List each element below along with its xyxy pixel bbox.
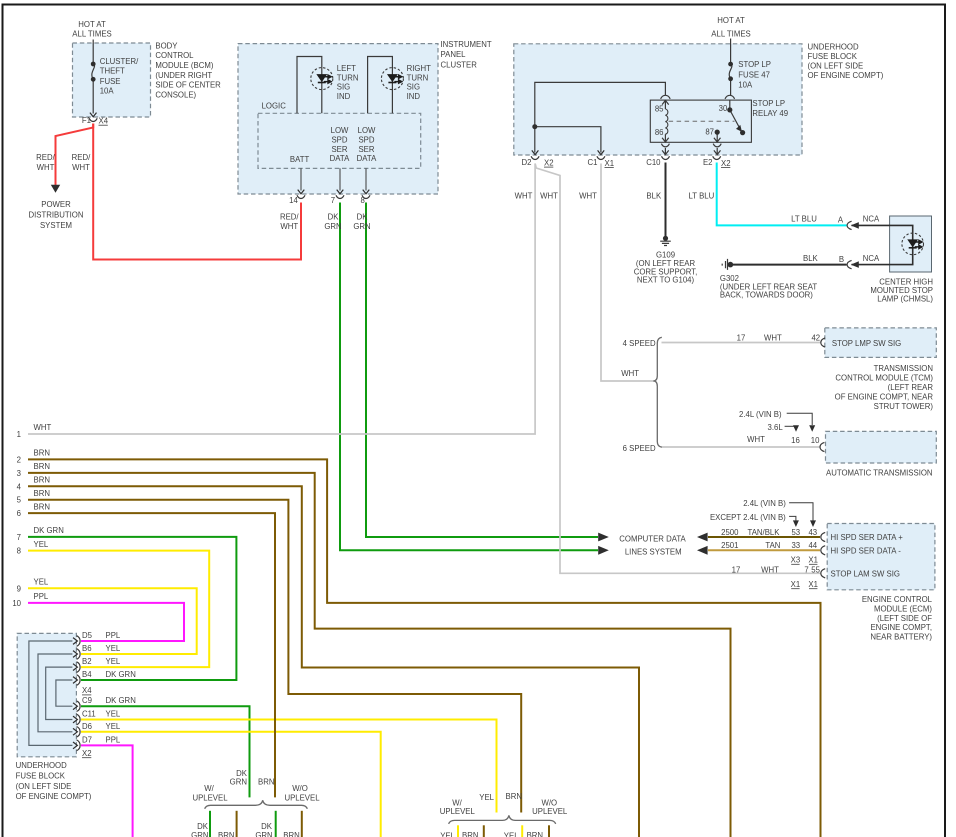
- underline X1 ECM r2c2: [809, 588, 817, 590]
- wire 9 YEL to fuse block B6: [28, 588, 197, 654]
- svg-text:DK GRN: DK GRN: [106, 670, 136, 679]
- CHMSL lamp box: [890, 216, 932, 272]
- 2.4L VIN B pointer line (ECM): [789, 503, 813, 521]
- underline X1 ECM r2c1: [791, 588, 799, 590]
- svg-text:BLK: BLK: [803, 254, 819, 263]
- svg-text:2.4L (VIN B): 2.4L (VIN B): [739, 410, 782, 419]
- svg-text:3.6L: 3.6L: [768, 423, 784, 432]
- svg-text:SIDE OF CENTER: SIDE OF CENTER: [155, 81, 221, 90]
- relay coil winding: [665, 109, 667, 134]
- wire 10 PPL to fuse block D5: [28, 603, 184, 641]
- svg-text:C9: C9: [82, 696, 92, 705]
- svg-text:DK: DK: [197, 822, 209, 831]
- svg-text:TRANSMISSION: TRANSMISSION: [874, 364, 933, 373]
- arrow computer data lines row 2: [598, 546, 609, 555]
- relay 49 coil pin 85 arrow up + line: [662, 100, 669, 109]
- svg-text:(ON LEFT SIDE: (ON LEFT SIDE: [16, 782, 72, 791]
- svg-text:YEL: YEL: [34, 540, 49, 549]
- svg-text:OF ENGINE COMPT): OF ENGINE COMPT): [808, 71, 884, 80]
- svg-text:TAN/BLK: TAN/BLK: [748, 528, 781, 537]
- junction dot relay pin 87: [715, 130, 720, 135]
- svg-text:GRN: GRN: [191, 831, 208, 837]
- CHMSL bulb circle: [902, 233, 924, 255]
- svg-text:6 SPEED: 6 SPEED: [623, 444, 656, 453]
- pin arrows pointing down at box edges: [90, 113, 604, 194]
- wire BCM fuse to X4 pin: [92, 79, 94, 113]
- svg-text:WHT: WHT: [579, 192, 597, 201]
- wire relay 86 to C10 with arrow: [662, 148, 669, 155]
- svg-text:STOP LAM SW SIG: STOP LAM SW SIG: [831, 569, 900, 578]
- underline X2 E2: [721, 167, 730, 169]
- svg-text:3: 3: [17, 469, 21, 478]
- svg-text:30: 30: [719, 104, 728, 113]
- svg-text:D2: D2: [522, 158, 532, 167]
- svg-text:SER: SER: [358, 145, 374, 154]
- connector cup transmission 10: [820, 442, 824, 451]
- svg-text:8: 8: [17, 547, 21, 556]
- svg-text:W/O: W/O: [292, 784, 308, 793]
- wire logic data output to pin 8: [365, 168, 367, 190]
- pin D5: [73, 636, 80, 647]
- svg-text:ALL TIMES: ALL TIMES: [72, 30, 111, 39]
- wire PPL fuse block D7 down: [81, 745, 133, 837]
- svg-text:87: 87: [705, 128, 714, 137]
- LED symbol left turn: [317, 75, 331, 84]
- svg-text:RED/: RED/: [280, 212, 299, 221]
- svg-text:B4: B4: [82, 670, 92, 679]
- svg-text:DK: DK: [261, 822, 273, 831]
- svg-text:FUSE 47: FUSE 47: [738, 70, 770, 79]
- svg-text:33: 33: [791, 541, 800, 550]
- svg-text:MODULE (BCM): MODULE (BCM): [155, 61, 213, 70]
- svg-text:OF ENGINE COMPT): OF ENGINE COMPT): [16, 792, 92, 801]
- connector cup CHMSL A: [847, 221, 852, 229]
- svg-text:4 SPEED: 4 SPEED: [623, 339, 656, 348]
- svg-text:COMPUTER DATA: COMPUTER DATA: [619, 535, 686, 544]
- svg-text:BLK: BLK: [646, 192, 662, 201]
- underline X2 lower block: [82, 757, 91, 759]
- connector cup ECM 43: [821, 532, 825, 541]
- pin arrow cluster 8: [363, 190, 370, 194]
- arrow ECM row 1 left: [697, 533, 708, 542]
- pin arrow BCM X4: [90, 113, 97, 117]
- connector cup relay 87 bottom: [713, 144, 721, 147]
- underline X4 BCM: [99, 124, 108, 126]
- svg-text:F1: F1: [82, 116, 91, 125]
- wire WHT 16 10 to automatic transmission 6 speed: [662, 446, 820, 448]
- svg-text:NEXT TO G104): NEXT TO G104): [637, 276, 695, 285]
- underhood fuse block bottom box: [17, 633, 76, 756]
- svg-text:IND: IND: [337, 92, 351, 101]
- svg-text:16: 16: [791, 436, 800, 445]
- svg-text:YEL: YEL: [106, 644, 121, 653]
- pin arrow C1: [598, 150, 605, 154]
- svg-text:UNDERHOOD: UNDERHOOD: [16, 761, 67, 770]
- svg-text:WHT: WHT: [747, 435, 765, 444]
- pin C11: [73, 714, 80, 725]
- svg-text:YEL: YEL: [440, 832, 455, 837]
- connector cups facing up (below edges): [89, 95, 851, 578]
- svg-text:ALL TIMES: ALL TIMES: [711, 29, 750, 38]
- svg-text:RED/: RED/: [36, 153, 55, 162]
- fuse block internal loop D5-D7: [29, 641, 73, 745]
- svg-text:FUSE BLOCK: FUSE BLOCK: [808, 52, 858, 61]
- svg-text:FUSE: FUSE: [100, 77, 121, 86]
- svg-text:ENGINE COMPT,: ENGINE COMPT,: [870, 623, 932, 632]
- wire DK GRN fuse block C9 to uplevel brace: [81, 706, 250, 797]
- connector cup relay 86 bottom: [661, 144, 669, 147]
- relay internal dashed divider: [669, 120, 735, 122]
- svg-text:BRN: BRN: [527, 831, 543, 837]
- svg-text:POWER: POWER: [41, 200, 71, 209]
- arrow relay blade tip: [736, 125, 742, 132]
- wire BRN w/o uplevel output left group: [301, 811, 303, 837]
- relay switch pin 30 stem: [729, 100, 731, 110]
- connector cup cluster 8: [362, 195, 370, 198]
- brace uplevel split middle group: [449, 815, 556, 824]
- svg-text:C11: C11: [82, 710, 96, 719]
- svg-text:SPD: SPD: [358, 135, 374, 144]
- svg-text:RED/: RED/: [72, 153, 91, 162]
- svg-text:EXCEPT 2.4L (VIN B): EXCEPT 2.4L (VIN B): [710, 513, 786, 522]
- connector cup D2/X2: [531, 156, 539, 159]
- svg-text:X2: X2: [721, 159, 731, 168]
- cluster LED left loop: [297, 57, 322, 114]
- svg-text:7: 7: [804, 566, 808, 575]
- underline X1 ECM c2: [809, 563, 817, 565]
- svg-text:8: 8: [360, 196, 364, 205]
- splice G302 bars: [722, 259, 727, 270]
- svg-text:UPLEVEL: UPLEVEL: [284, 794, 320, 803]
- svg-text:UPLEVEL: UPLEVEL: [440, 807, 476, 816]
- svg-text:WHT: WHT: [540, 192, 558, 201]
- svg-text:5: 5: [17, 496, 22, 505]
- svg-text:A: A: [838, 216, 844, 225]
- svg-text:WHT: WHT: [515, 192, 533, 201]
- svg-text:WHT: WHT: [761, 566, 779, 575]
- wire BLK CHMSL A internal to bulb: [852, 225, 913, 264]
- svg-text:C1: C1: [588, 158, 598, 167]
- logic block inside cluster: [258, 113, 421, 168]
- underline X3 ECM: [791, 563, 799, 565]
- svg-text:STRUT TOWER): STRUT TOWER): [874, 402, 934, 411]
- arrow ECM row 2 left: [697, 546, 708, 555]
- svg-text:DK GRN: DK GRN: [34, 526, 64, 535]
- svg-text:2501: 2501: [721, 541, 738, 550]
- arrow 2.4L down to pin 10: [809, 425, 815, 432]
- arrow except 2.4L down to pin 53: [793, 520, 799, 527]
- svg-text:W/: W/: [204, 784, 214, 793]
- wire relay 87 to E2 with arrow: [714, 148, 721, 155]
- svg-text:X2: X2: [82, 749, 92, 758]
- connector cup ECM 44: [821, 546, 825, 555]
- svg-text:DK: DK: [328, 212, 340, 221]
- svg-text:WHT: WHT: [280, 222, 298, 231]
- wire YEL w/o uplevel output: [521, 825, 523, 837]
- svg-text:AUTOMATIC TRANSMISSION: AUTOMATIC TRANSMISSION: [826, 468, 933, 477]
- arrow CHMSL B left: [851, 261, 859, 268]
- svg-text:CLUSTER/: CLUSTER/: [100, 57, 139, 66]
- svg-text:SPD: SPD: [331, 135, 347, 144]
- 3.6L pointer line: [785, 425, 796, 427]
- svg-text:BRN: BRN: [34, 502, 50, 511]
- svg-text:LINES SYSTEM: LINES SYSTEM: [625, 547, 682, 556]
- svg-text:DATA: DATA: [330, 154, 350, 163]
- wire 1 WHT from D2: [28, 164, 535, 435]
- wire 2 BRN: [28, 459, 821, 837]
- svg-text:6: 6: [17, 509, 21, 518]
- svg-text:10A: 10A: [100, 87, 115, 96]
- connector cup relay 85 top: [661, 95, 671, 99]
- svg-text:LOGIC: LOGIC: [262, 102, 287, 111]
- junction dot relay blade end: [740, 130, 745, 135]
- svg-text:4: 4: [17, 482, 22, 491]
- relay switch blade: [730, 110, 741, 130]
- svg-text:1: 1: [17, 430, 21, 439]
- wire 3 BRN: [28, 473, 731, 837]
- wire UHFB internal: D2 vertical to top rail: [535, 82, 666, 152]
- connector cup E2/X2: [713, 156, 721, 159]
- svg-text:STOP LMP SW SIG: STOP LMP SW SIG: [832, 339, 901, 348]
- fuse block internal loop B6-D6: [38, 654, 72, 732]
- wire UHFB internal: junction to C1: [535, 127, 601, 153]
- wire hot feed into BCM fuse: [92, 40, 94, 64]
- wire LT BLU relay E2 to CHMSL A: [717, 163, 847, 226]
- svg-text:LT BLU: LT BLU: [689, 192, 715, 201]
- svg-text:HI SPD SER DATA +: HI SPD SER DATA +: [831, 533, 904, 542]
- connector cup CHMSL B: [847, 260, 852, 268]
- svg-text:CONTROL MODULE (TCM): CONTROL MODULE (TCM): [835, 373, 933, 382]
- pin D6: [73, 727, 80, 738]
- svg-text:BRN: BRN: [218, 831, 234, 837]
- svg-text:PANEL: PANEL: [441, 50, 467, 59]
- svg-text:10: 10: [811, 436, 820, 445]
- junction dot fuse F1 top: [91, 62, 96, 67]
- svg-text:BRN: BRN: [34, 489, 50, 498]
- connector cup cluster 7: [336, 195, 344, 198]
- svg-text:SER: SER: [331, 145, 347, 154]
- TCM stop lmp sw sig box: [825, 328, 937, 358]
- fuse block internal loop B2-C11: [46, 667, 73, 719]
- wire 17 WHT 42 to TCM 4 speed: [662, 342, 821, 344]
- svg-text:X1: X1: [808, 580, 818, 589]
- wire logic data output to pin 7: [339, 168, 341, 190]
- pin arrow D2: [532, 150, 539, 154]
- svg-text:9: 9: [17, 584, 21, 593]
- svg-text:NCA: NCA: [863, 215, 880, 224]
- svg-text:7: 7: [331, 196, 335, 205]
- wire YEL fuse block C11 to uplevel brace: [81, 720, 497, 813]
- svg-text:WHT: WHT: [621, 369, 639, 378]
- svg-text:WHT: WHT: [34, 423, 52, 432]
- svg-text:UPLEVEL: UPLEVEL: [532, 807, 568, 816]
- left turn sig ind LED circle: [311, 68, 333, 90]
- wire DK GRN w/o uplevel output: [275, 811, 277, 837]
- wire DK GRN cluster pin 8 low spd ser data: [366, 203, 598, 538]
- wire RED/WHT BCM X4 to cluster pin 14: [93, 124, 301, 260]
- svg-text:YEL: YEL: [479, 793, 494, 802]
- svg-text:WHT: WHT: [72, 163, 90, 172]
- svg-text:D7: D7: [82, 735, 92, 744]
- svg-text:(LEFT SIDE OF: (LEFT SIDE OF: [877, 614, 932, 623]
- svg-text:SIG: SIG: [337, 83, 350, 92]
- connector cup TCM 42: [821, 338, 825, 347]
- wire BRN w/o uplevel output mid group: [548, 825, 550, 837]
- wire 8 YEL to fuse block B2: [28, 551, 209, 668]
- relay coil pin 86 line + arrow down: [662, 134, 669, 142]
- svg-text:44: 44: [808, 541, 817, 550]
- wire DK GRN cluster pin 7 low spd ser data: [340, 203, 598, 551]
- svg-text:CENTER HIGH: CENTER HIGH: [879, 277, 933, 286]
- junction dot UHFB internal node: [532, 124, 537, 129]
- wire DK GRN w/uplevel output: [209, 811, 211, 837]
- pin B4: [73, 675, 80, 686]
- connector cup C1/X1: [597, 156, 605, 159]
- svg-text:DK: DK: [357, 212, 369, 221]
- automatic transmission box: [826, 431, 937, 463]
- svg-text:STOP LP: STOP LP: [738, 60, 771, 69]
- svg-text:X4: X4: [82, 686, 92, 695]
- svg-text:YEL: YEL: [106, 722, 121, 731]
- svg-text:(LEFT REAR: (LEFT REAR: [888, 383, 934, 392]
- svg-text:2.4L (VIN B): 2.4L (VIN B): [743, 499, 786, 508]
- svg-text:NEAR BATTERY): NEAR BATTERY): [870, 633, 932, 642]
- svg-text:THEFT: THEFT: [100, 67, 125, 76]
- wire YEL fuse block D6 down: [81, 732, 381, 837]
- svg-text:SIG: SIG: [407, 83, 420, 92]
- arrow CHMSL A left: [851, 222, 859, 229]
- svg-text:NCA: NCA: [863, 254, 880, 263]
- svg-text:D5: D5: [82, 631, 93, 640]
- EXCEPT 2.4L VIN B pointer line: [789, 516, 796, 520]
- svg-text:ENGINE CONTROL: ENGINE CONTROL: [862, 595, 933, 604]
- svg-text:LEFT: LEFT: [337, 64, 356, 73]
- svg-text:BRN: BRN: [283, 831, 299, 837]
- connector cup ECM 55: [821, 569, 825, 578]
- brace uplevel split left group: [205, 800, 308, 809]
- svg-text:42: 42: [811, 333, 820, 342]
- svg-text:55: 55: [811, 566, 820, 575]
- svg-text:DK GRN: DK GRN: [106, 696, 136, 705]
- body control module BCM box: [73, 43, 151, 117]
- svg-text:DATA: DATA: [357, 154, 377, 163]
- wire 7 DK GRN to fuse block B4: [28, 537, 236, 680]
- svg-text:D6: D6: [82, 722, 92, 731]
- svg-text:2: 2: [17, 455, 21, 464]
- cluster LED right loop: [368, 57, 393, 114]
- svg-text:YEL: YEL: [106, 710, 121, 719]
- svg-text:RIGHT: RIGHT: [407, 64, 431, 73]
- svg-text:YEL: YEL: [34, 578, 49, 587]
- svg-text:GRN: GRN: [324, 222, 341, 231]
- underline X1 C1: [605, 167, 614, 169]
- wire 4 BRN: [28, 486, 639, 837]
- brace 4speed/6speed split: [653, 337, 662, 447]
- svg-text:MODULE (ECM): MODULE (ECM): [874, 604, 932, 613]
- svg-text:GRN: GRN: [255, 831, 272, 837]
- svg-text:GRN: GRN: [230, 777, 247, 786]
- underline X4 lower block: [82, 694, 91, 696]
- connector cup BCM X4: [89, 118, 97, 121]
- wire logic batt output to pin 14: [300, 168, 302, 190]
- svg-text:INSTRUMENT: INSTRUMENT: [441, 40, 492, 49]
- wire 2500 TAN/BLK to ECM 53/43: [708, 536, 820, 538]
- svg-text:LAMP (CHMSL): LAMP (CHMSL): [877, 295, 933, 304]
- svg-text:B6: B6: [82, 644, 92, 653]
- ground G109 dot: [663, 236, 668, 241]
- wire 2501 TAN to ECM 33/44: [708, 549, 820, 551]
- underline marks for connector names: [82, 125, 817, 758]
- svg-text:TAN: TAN: [765, 541, 780, 550]
- svg-text:YEL: YEL: [106, 657, 121, 666]
- connector cup C10: [662, 156, 670, 159]
- svg-text:BRN: BRN: [34, 449, 50, 458]
- svg-text:X4: X4: [99, 117, 109, 126]
- svg-text:X2: X2: [544, 159, 554, 168]
- pin B6: [73, 649, 80, 660]
- svg-text:FUSE BLOCK: FUSE BLOCK: [16, 771, 66, 780]
- svg-text:SYSTEM: SYSTEM: [40, 221, 72, 230]
- connector cup relay 30 top: [725, 95, 735, 99]
- svg-text:MOUNTED STOP: MOUNTED STOP: [870, 286, 933, 295]
- svg-text:(ON LEFT SIDE: (ON LEFT SIDE: [808, 62, 864, 71]
- fuse F47 stop lp 10A squiggle: [729, 64, 732, 79]
- svg-text:YEL: YEL: [504, 832, 519, 837]
- svg-text:UNDERHOOD: UNDERHOOD: [808, 42, 859, 51]
- svg-text:UPLEVEL: UPLEVEL: [192, 794, 228, 803]
- svg-text:LT BLU: LT BLU: [791, 215, 817, 224]
- pin D7: [73, 740, 80, 751]
- wire RED/WHT branch to power distribution: [56, 124, 94, 186]
- svg-text:HOT AT: HOT AT: [78, 20, 106, 29]
- svg-text:X1: X1: [791, 580, 801, 589]
- svg-text:BRN: BRN: [506, 792, 522, 801]
- svg-text:WHT: WHT: [764, 333, 782, 342]
- svg-text:PPL: PPL: [106, 735, 121, 744]
- svg-text:X1: X1: [808, 556, 818, 565]
- svg-text:DISTRIBUTION: DISTRIBUTION: [28, 211, 83, 220]
- fuse block internal loop B4-C9: [56, 680, 73, 706]
- arrow power distribution system: [51, 185, 60, 193]
- svg-text:86: 86: [655, 128, 664, 137]
- svg-text:PPL: PPL: [106, 631, 121, 640]
- svg-text:BRN: BRN: [258, 777, 274, 786]
- svg-text:53: 53: [791, 528, 800, 537]
- wire BLK G302 splice to CHMSL B: [733, 264, 847, 266]
- svg-text:TURN: TURN: [337, 73, 359, 82]
- svg-text:10: 10: [12, 599, 21, 608]
- svg-text:BRN: BRN: [462, 831, 478, 837]
- connector cup cluster 14: [297, 195, 305, 198]
- svg-text:GRN: GRN: [353, 222, 370, 231]
- svg-text:OF ENGINE COMPT, NEAR: OF ENGINE COMPT, NEAR: [835, 392, 934, 401]
- wire hot feed into UHFB fuse 47: [730, 39, 732, 64]
- wire 5 BRN to uplevel brace: [28, 500, 521, 813]
- wire BRN w/uplevel output left group: [236, 811, 238, 837]
- svg-text:17: 17: [737, 333, 746, 342]
- svg-text:CLUSTER: CLUSTER: [441, 60, 478, 69]
- ground G109 bars: [660, 241, 671, 245]
- junction dot fuse F1 bottom: [91, 77, 96, 82]
- svg-text:BODY: BODY: [155, 41, 178, 50]
- bulb symbol CHMSL: [908, 240, 922, 249]
- svg-text:HI SPD SER DATA -: HI SPD SER DATA -: [831, 546, 902, 555]
- wire WHT D2 to ECM stop lam sw sig: [535, 164, 820, 574]
- wire BRN w/uplevel output mid group: [483, 825, 485, 837]
- pin arrow cluster 14: [298, 190, 305, 194]
- svg-text:7: 7: [17, 533, 21, 542]
- pin arrow cluster 7: [337, 190, 344, 194]
